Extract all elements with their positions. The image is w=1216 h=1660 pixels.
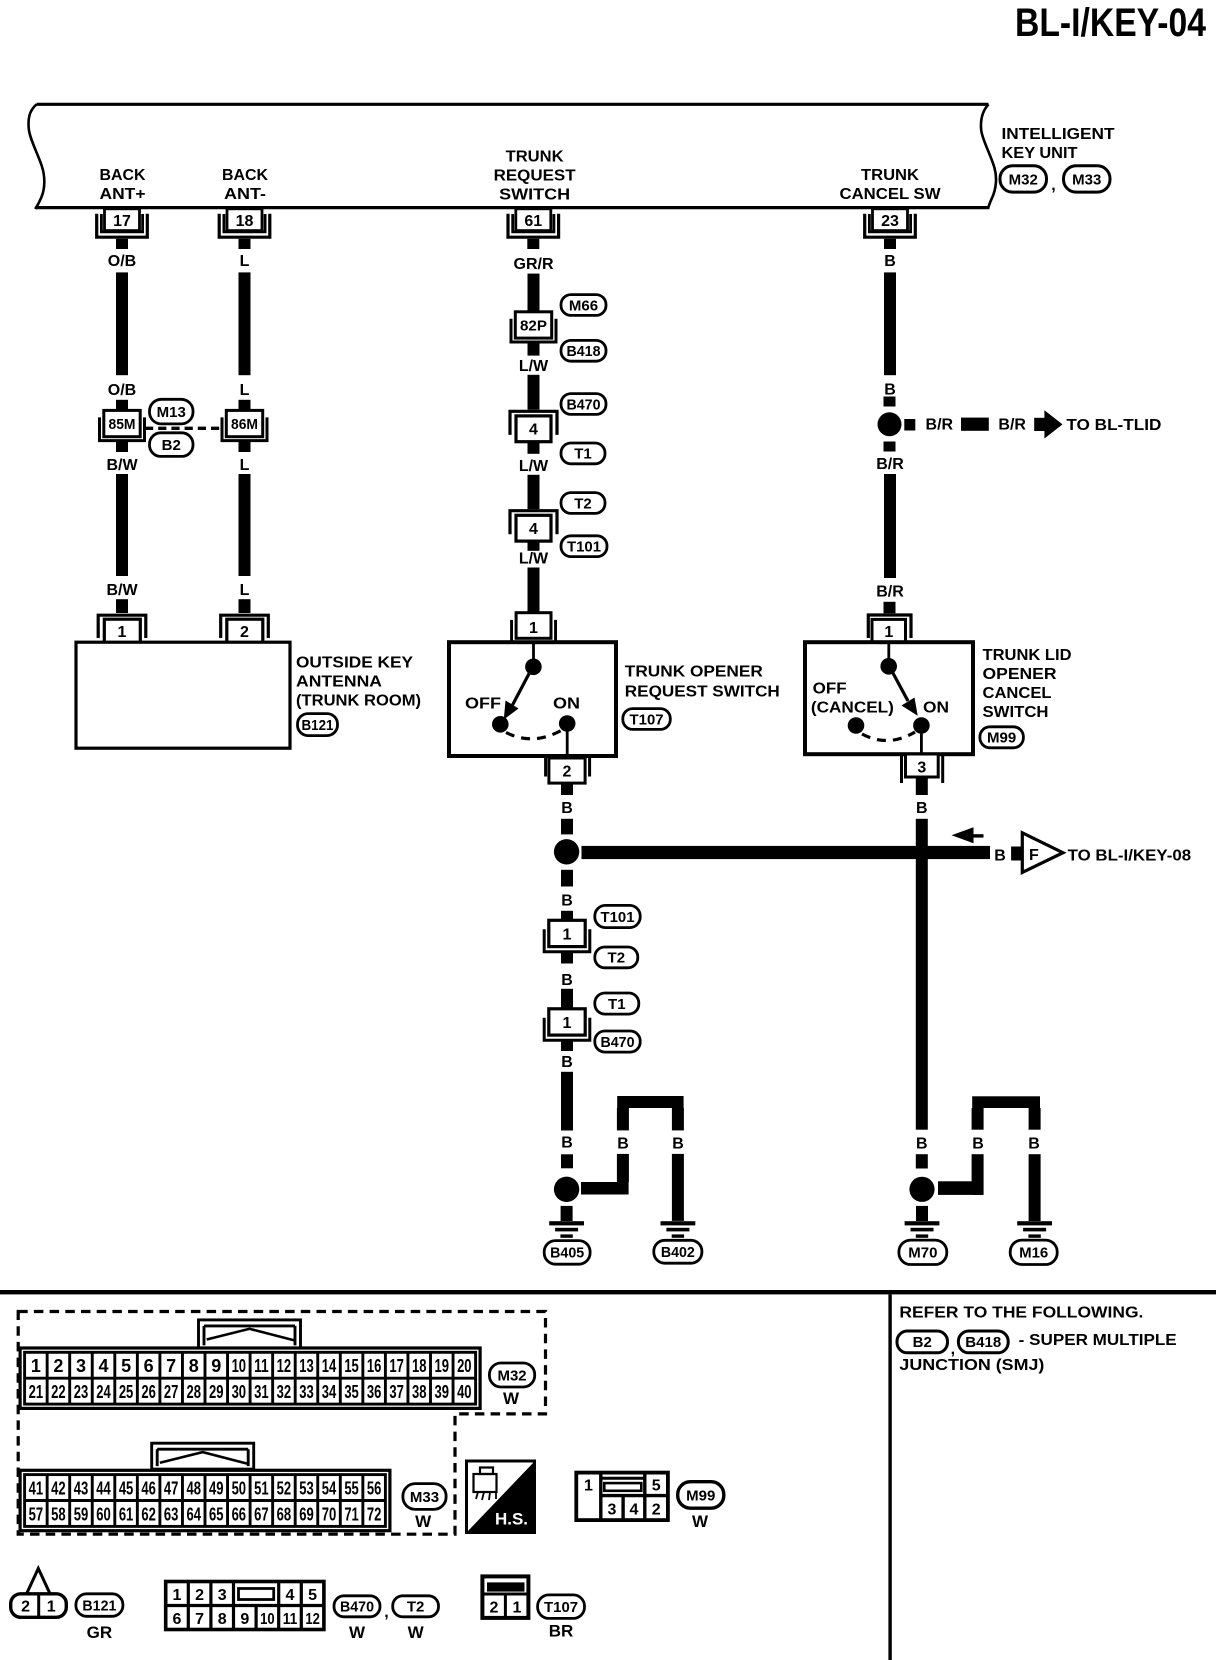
svg-text:9: 9: [240, 1611, 249, 1628]
svg-text:19: 19: [435, 1356, 450, 1376]
svg-text:,: ,: [384, 1604, 388, 1621]
svg-text:16: 16: [367, 1356, 382, 1376]
antenna symbol (triangle): [27, 1569, 50, 1594]
svg-text:2: 2: [652, 1502, 661, 1519]
ground B405: [549, 1221, 584, 1238]
connector B470/T2 pinout: [166, 1582, 324, 1630]
svg-text:36: 36: [367, 1382, 382, 1402]
label GR: [87, 1623, 113, 1642]
svg-text:OUTSIDE KEY: OUTSIDE KEY: [296, 654, 413, 671]
junction node col3: [554, 839, 579, 864]
wire stub: [561, 1039, 573, 1051]
connector ref B2 (SMJ): [897, 1331, 948, 1353]
svg-text:34: 34: [322, 1382, 337, 1402]
svg-text:27: 27: [164, 1382, 179, 1402]
svg-text:48: 48: [186, 1479, 201, 1499]
label B: [561, 1054, 573, 1071]
svg-text:52: 52: [277, 1479, 292, 1499]
svg-text:67: 67: [254, 1504, 269, 1524]
svg-text:B2: B2: [913, 1334, 932, 1351]
svg-text:65: 65: [209, 1504, 224, 1524]
svg-text:B: B: [884, 253, 896, 270]
ground ref B402: [654, 1240, 702, 1263]
svg-text:T1: T1: [574, 446, 592, 463]
connector ref B470: [561, 394, 606, 415]
svg-text:B: B: [561, 892, 573, 909]
svg-text:ON: ON: [923, 699, 949, 716]
ground M16: [1017, 1221, 1052, 1238]
svg-text:F: F: [1029, 847, 1039, 864]
svg-text:B: B: [561, 1135, 573, 1152]
svg-text:63: 63: [164, 1504, 179, 1524]
svg-text:TO BL-TLID: TO BL-TLID: [1066, 417, 1161, 434]
connector T107 pinout: [482, 1576, 528, 1618]
pin 2 (trunk opener request switch): [544, 756, 591, 783]
comma: [384, 1604, 388, 1621]
pin 17 (IKU BACK ANT+): [97, 209, 148, 249]
label OFF: [465, 696, 501, 713]
svg-text:B/R: B/R: [926, 416, 954, 433]
junction node col3 ground: [554, 1177, 579, 1202]
wire stub into 86M: [239, 400, 251, 411]
wire stub into cancel switch pin 1: [884, 602, 896, 614]
label TO BL-I/KEY-08: [1068, 847, 1192, 864]
svg-text:11: 11: [254, 1356, 269, 1376]
connector M32 (IKU): [1000, 166, 1047, 192]
wire col3 to conn4a: [528, 375, 540, 410]
label O/B: [108, 253, 136, 270]
cancel switch wire pin1 to pivot: [887, 644, 890, 660]
svg-text:L/W: L/W: [519, 358, 549, 375]
connector ref B470: [595, 1031, 640, 1052]
label INTELLIGENT KEY UNIT: [1002, 126, 1115, 162]
label B: [972, 1136, 984, 1153]
svg-text:7: 7: [195, 1611, 204, 1628]
svg-text:GR: GR: [87, 1623, 113, 1642]
svg-text:58: 58: [51, 1504, 66, 1524]
svg-text:18: 18: [412, 1356, 427, 1376]
svg-text:TRUNK LID: TRUNK LID: [983, 647, 1072, 664]
svg-text:M32: M32: [1009, 171, 1038, 188]
label B: [916, 800, 928, 817]
connector ref B121: [76, 1594, 123, 1617]
svg-text:32: 32: [277, 1382, 292, 1402]
wire col1 lower: [116, 474, 128, 576]
switch arm arrow (to OFF): [504, 669, 532, 720]
svg-text:61: 61: [119, 1504, 134, 1524]
switch OFF contact: [492, 716, 509, 733]
connector ref M99: [678, 1482, 724, 1509]
svg-text:71: 71: [344, 1504, 359, 1524]
connector M33 pinout tab: [152, 1443, 254, 1469]
svg-text:3: 3: [607, 1502, 616, 1519]
svg-text:1: 1: [173, 1587, 182, 1604]
connector 82P (SMJ): [511, 312, 556, 342]
label BR: [549, 1621, 574, 1640]
svg-text:B: B: [672, 1136, 684, 1153]
svg-text:TRUNK: TRUNK: [506, 149, 564, 166]
svg-text:42: 42: [51, 1479, 66, 1499]
wire col1 upper: [116, 272, 128, 375]
svg-text:66: 66: [232, 1504, 247, 1524]
svg-text:ANT-: ANT-: [224, 186, 266, 203]
svg-text:18: 18: [236, 213, 254, 230]
svg-text:OFF: OFF: [465, 696, 501, 713]
svg-text:44: 44: [96, 1479, 111, 1499]
branch wire right leg upper: [1029, 1108, 1041, 1130]
node F triangle to BL-I/KEY-08: [1022, 833, 1063, 873]
branch wire top bar: [617, 1096, 683, 1108]
svg-text:2: 2: [240, 624, 249, 641]
svg-text:4: 4: [529, 521, 538, 538]
pin 2 (outside key antenna): [221, 615, 269, 644]
svg-text:ANT+: ANT+: [100, 186, 146, 203]
branch wire left leg upper: [617, 1108, 629, 1130]
junction node col4 B/R: [878, 412, 902, 436]
svg-text:1: 1: [563, 926, 572, 943]
H.S. hand symbol: [467, 1461, 535, 1533]
svg-text:B: B: [561, 1054, 573, 1071]
connector ref T2: [561, 493, 605, 514]
svg-text:,: ,: [1051, 177, 1055, 194]
svg-text:L: L: [240, 253, 250, 270]
intelligent key unit box (IKU): [28, 104, 996, 209]
svg-text:15: 15: [344, 1356, 359, 1376]
connector 4 (T1/B470): [510, 411, 557, 441]
svg-text:(TRUNK ROOM): (TRUNK ROOM): [296, 692, 421, 709]
switch pivot contact: [525, 659, 542, 676]
label JUNCTION (SMJ): [899, 1357, 1044, 1374]
svg-text:M13: M13: [157, 404, 186, 421]
svg-text:53: 53: [299, 1479, 314, 1499]
svg-text:BL-I/KEY-04: BL-I/KEY-04: [1015, 1, 1207, 45]
svg-text:B: B: [561, 800, 573, 817]
svg-text:35: 35: [344, 1382, 359, 1402]
svg-text:4: 4: [99, 1356, 109, 1376]
svg-text:1: 1: [884, 624, 893, 641]
svg-text:86M: 86M: [231, 417, 258, 433]
svg-text:1: 1: [31, 1356, 41, 1376]
svg-text:2: 2: [195, 1587, 204, 1604]
connector B121 pinout: [11, 1594, 67, 1618]
label L: [240, 582, 250, 599]
wire col4 upper: [884, 272, 896, 375]
svg-text:4: 4: [629, 1502, 638, 1519]
dashed boundary (SMJ detail area): [18, 1312, 545, 1535]
svg-text:59: 59: [74, 1504, 89, 1524]
label L: [240, 253, 250, 270]
wire stub below 85M: [116, 441, 128, 452]
svg-text:O/B: O/B: [108, 253, 136, 270]
connector ref T2: [393, 1596, 439, 1617]
cancel switch wire ON to pin3: [920, 733, 923, 756]
svg-text:L: L: [240, 457, 250, 474]
svg-text:13: 13: [299, 1356, 314, 1376]
svg-text:28: 28: [186, 1382, 201, 1402]
svg-text:25: 25: [119, 1382, 134, 1402]
connector ref M32: [489, 1363, 534, 1387]
svg-text:REFER TO THE FOLLOWING.: REFER TO THE FOLLOWING.: [899, 1305, 1143, 1322]
svg-text:23: 23: [881, 213, 899, 230]
svg-text:54: 54: [322, 1479, 337, 1499]
svg-text:6: 6: [173, 1611, 182, 1628]
wire col3 to 82P: [528, 274, 540, 312]
title BL-I/KEY-04: [1015, 1, 1207, 45]
wire stub to ground: [561, 1206, 573, 1221]
label TO BL-TLID: [1066, 417, 1161, 434]
svg-text:(CANCEL): (CANCEL): [811, 699, 894, 716]
svg-text:B121: B121: [82, 1597, 116, 1614]
label B: [994, 847, 1006, 864]
svg-text:61: 61: [524, 213, 542, 230]
wire col2 lower: [239, 474, 251, 576]
svg-text:17: 17: [389, 1356, 404, 1376]
svg-text:- SUPER MULTIPLE: - SUPER MULTIPLE: [1019, 1332, 1177, 1349]
svg-text:1: 1: [513, 1600, 522, 1617]
separator line: [0, 1290, 1216, 1294]
svg-text:OFF: OFF: [813, 680, 847, 697]
svg-text:B: B: [884, 382, 896, 399]
connector 86M: [222, 410, 267, 440]
label W: [503, 1389, 520, 1408]
label B: [1028, 1136, 1040, 1153]
svg-text:TRUNK OPENER: TRUNK OPENER: [625, 664, 763, 681]
svg-text:46: 46: [141, 1479, 156, 1499]
svg-text:KEY UNIT: KEY UNIT: [1002, 145, 1078, 162]
connector ref T107: [538, 1595, 585, 1619]
connector 1 (T101/T2): [544, 920, 590, 951]
arrow TO BL-TLID: [1034, 410, 1062, 438]
wire seg: [561, 870, 573, 887]
B/R branch dash: [961, 418, 989, 431]
svg-text:1: 1: [47, 1599, 56, 1616]
svg-text:BACK: BACK: [100, 167, 146, 184]
trunk opener request switch box (T107): [449, 642, 616, 756]
svg-text:26: 26: [141, 1382, 156, 1402]
svg-text:85M: 85M: [109, 417, 136, 433]
connector ref M13: [150, 399, 194, 424]
svg-text:60: 60: [96, 1504, 111, 1524]
svg-text:2: 2: [490, 1600, 499, 1617]
svg-text:SWITCH: SWITCH: [499, 186, 570, 203]
wire stub: [561, 952, 573, 964]
label TRUNK OPENER REQUEST SWITCH: [625, 664, 780, 701]
label OUTSIDE KEY ANTENNA (TRUNK ROOM): [296, 654, 421, 709]
svg-text:1: 1: [584, 1478, 593, 1495]
svg-text:B/R: B/R: [876, 583, 904, 600]
comma: [951, 1341, 955, 1358]
connector ref T101: [561, 536, 607, 557]
svg-text:B: B: [994, 847, 1006, 864]
svg-text:33: 33: [299, 1382, 314, 1402]
svg-text:20: 20: [457, 1356, 472, 1376]
svg-text:L: L: [240, 582, 250, 599]
arrowhead left (wire direction): [952, 827, 984, 843]
svg-text:47: 47: [164, 1479, 179, 1499]
svg-text:64: 64: [186, 1504, 201, 1524]
wire stub below 86M: [239, 441, 251, 452]
svg-text:31: 31: [254, 1382, 269, 1402]
label B/R: [876, 583, 904, 600]
ground ref M16: [1010, 1240, 1057, 1264]
svg-text:TO BL-I/KEY-08: TO BL-I/KEY-08: [1068, 847, 1192, 864]
svg-text:51: 51: [254, 1479, 269, 1499]
svg-text:39: 39: [435, 1382, 450, 1402]
svg-text:ON: ON: [553, 696, 580, 713]
svg-text:55: 55: [344, 1479, 359, 1499]
svg-text:B418: B418: [965, 1334, 1001, 1351]
wire col3 to conn4b: [528, 475, 540, 509]
branch wire right leg lower: [1029, 1154, 1041, 1221]
cancel switch ON contact: [913, 717, 930, 734]
outside key antenna box (B121): [76, 642, 290, 748]
connector M33 (IKU): [1064, 166, 1111, 192]
connector M33 pinout grid: [20, 1470, 390, 1530]
svg-text:3: 3: [917, 759, 926, 776]
label OFF (CANCEL): [811, 680, 894, 716]
svg-text:82P: 82P: [520, 319, 547, 335]
svg-text:41: 41: [29, 1479, 44, 1499]
wire seg above ground junction: [561, 1154, 573, 1168]
svg-text:B: B: [972, 1136, 984, 1153]
svg-text:O/B: O/B: [108, 382, 136, 399]
label B/W: [106, 582, 138, 599]
label B: [884, 253, 896, 270]
connector ref T2: [595, 947, 638, 968]
svg-text:38: 38: [412, 1382, 427, 1402]
svg-text:W: W: [349, 1623, 366, 1642]
svg-text:23: 23: [74, 1382, 89, 1402]
label GR/R: [514, 256, 554, 273]
svg-text:22: 22: [51, 1382, 66, 1402]
label B: [561, 1135, 573, 1152]
svg-text:GR/R: GR/R: [514, 256, 554, 273]
svg-text:10: 10: [260, 1611, 275, 1628]
branch wire left leg upper: [972, 1108, 984, 1130]
svg-text:BACK: BACK: [222, 167, 268, 184]
svg-text:3: 3: [76, 1356, 86, 1376]
cancel switch OFF contact: [848, 717, 865, 734]
svg-text:21: 21: [29, 1382, 44, 1402]
label B: [561, 800, 573, 817]
pin 61 (IKU TRUNK REQUEST SWITCH): [508, 209, 559, 249]
label B: [884, 382, 896, 399]
svg-text:SWITCH: SWITCH: [983, 704, 1049, 721]
label W: [349, 1623, 366, 1642]
ground ref B405: [544, 1241, 590, 1265]
svg-text:7: 7: [166, 1356, 176, 1376]
svg-text:6: 6: [144, 1356, 154, 1376]
label W: [408, 1623, 425, 1642]
label BACK ANT-: [222, 167, 268, 203]
svg-text:B470: B470: [567, 396, 601, 413]
switch ON contact: [559, 715, 576, 732]
svg-text:B121: B121: [302, 717, 334, 734]
wire stub: [561, 911, 573, 921]
pin 1 (trunk opener request switch): [510, 613, 557, 642]
junction node col4 ground: [909, 1177, 934, 1202]
pin 3 (trunk lid opener cancel switch): [900, 754, 944, 783]
svg-text:T101: T101: [601, 909, 635, 926]
label TRUNK REQUEST SWITCH: [494, 149, 576, 204]
svg-text:B470: B470: [601, 1034, 635, 1051]
wire col2 upper: [239, 272, 251, 375]
label L: [240, 457, 250, 474]
svg-text:40: 40: [457, 1382, 472, 1402]
branch wire right leg lower: [672, 1154, 684, 1221]
svg-text:M70: M70: [908, 1245, 937, 1262]
connector ref M99: [980, 727, 1024, 748]
svg-text:8: 8: [218, 1611, 227, 1628]
wire seg below junction: [884, 442, 896, 452]
ground ref M70: [899, 1240, 947, 1264]
svg-text:50: 50: [232, 1479, 247, 1499]
ground M70: [905, 1221, 940, 1238]
svg-text:T2: T2: [608, 950, 626, 967]
svg-text:B/W: B/W: [106, 582, 138, 599]
svg-text:49: 49: [209, 1479, 224, 1499]
wire stub below pin 2: [561, 783, 573, 795]
wire seg: [561, 989, 573, 1009]
svg-text:T107: T107: [630, 711, 664, 728]
label W: [415, 1512, 432, 1531]
svg-text:,: ,: [951, 1341, 955, 1358]
label B: [617, 1136, 629, 1153]
svg-text:12: 12: [305, 1611, 320, 1628]
B/R branch square: [904, 419, 915, 431]
svg-text:W: W: [415, 1512, 432, 1531]
trunk lid opener cancel switch box (M99): [805, 642, 973, 754]
svg-text:62: 62: [141, 1504, 156, 1524]
svg-text:B470: B470: [340, 1599, 374, 1616]
svg-text:29: 29: [209, 1382, 224, 1402]
svg-text:69: 69: [299, 1504, 314, 1524]
connector M99 pinout: [576, 1473, 668, 1521]
wire seg: [561, 819, 573, 835]
svg-text:M32: M32: [497, 1367, 526, 1384]
svg-text:17: 17: [113, 213, 131, 230]
svg-text:8: 8: [189, 1356, 199, 1376]
dashed link 85M-86M: [145, 427, 222, 430]
svg-text:5: 5: [121, 1356, 131, 1376]
branch wire left leg lower: [972, 1154, 984, 1195]
svg-text:B418: B418: [567, 343, 601, 360]
connector ref B470: [334, 1596, 380, 1617]
svg-text:REQUEST SWITCH: REQUEST SWITCH: [625, 683, 780, 700]
label B/R: [926, 416, 954, 433]
svg-text:B: B: [1028, 1136, 1040, 1153]
label TRUNK CANCEL SW: [840, 167, 942, 203]
label ON: [553, 696, 580, 713]
connector ref M33: [403, 1484, 446, 1510]
svg-text:B402: B402: [661, 1244, 695, 1261]
svg-text:M16: M16: [1019, 1245, 1048, 1262]
label TRUNK LID OPENER CANCEL SWITCH: [983, 647, 1072, 721]
branch wire left leg lower: [617, 1154, 629, 1182]
label B/R: [998, 416, 1026, 433]
svg-text:M99: M99: [686, 1487, 715, 1504]
svg-text:L: L: [240, 382, 250, 399]
branch wire top bar: [972, 1096, 1040, 1108]
label L/W: [519, 551, 549, 568]
connector ref T107: [623, 709, 671, 730]
svg-text:B/W: B/W: [106, 457, 138, 474]
svg-text:M33: M33: [1072, 171, 1101, 188]
svg-text:M66: M66: [569, 297, 598, 314]
svg-text:5: 5: [652, 1478, 661, 1495]
svg-text:B: B: [561, 972, 573, 989]
svg-text:14: 14: [322, 1356, 337, 1376]
